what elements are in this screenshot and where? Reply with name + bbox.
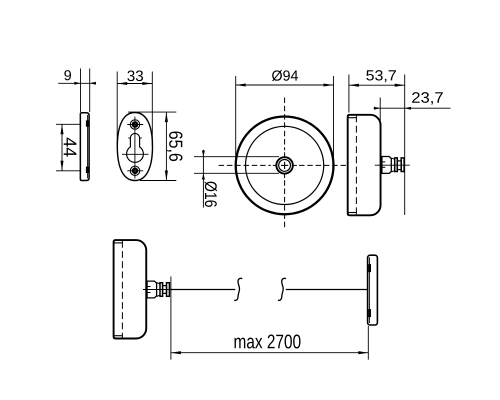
connector notch bottom	[368, 309, 371, 317]
dim 33 label	[127, 70, 143, 81]
cable segment 2	[286, 289, 368, 291]
cable break S2	[278, 278, 286, 300]
stud nut bottom	[147, 281, 157, 298]
dim O94 dimension line	[236, 84, 334, 86]
dim max2700 extension line left	[170, 277, 172, 360]
dim 44 extension lines	[56, 123, 80, 125]
dim 65,6 dimension line	[165, 112, 167, 180]
connector plate side view	[368, 255, 378, 325]
dim 23,7 label	[412, 92, 443, 104]
plate profile outline	[80, 113, 89, 181]
dim O16 extension lines	[194, 156, 279, 158]
stud cross	[281, 164, 288, 166]
dim 23,7 dimension line	[374, 107, 451, 109]
screw hole notch bottom	[86, 167, 89, 173]
dim 44 label	[64, 138, 77, 157]
nut flats bottom	[147, 286, 150, 288]
lens dashed line	[355, 116, 357, 215]
dim O16 dimension line	[202, 150, 204, 208]
cable break S1	[234, 278, 242, 300]
dim 23,7 extension line left	[379, 98, 381, 126]
connector notch top	[368, 264, 371, 272]
nut flats	[382, 161, 385, 163]
dim 9 label	[64, 70, 71, 80]
dim 9 extension line right	[89, 69, 91, 113]
horizontal centerline dashed	[219, 164, 271, 166]
screw hole bottom	[130, 166, 139, 175]
lens dashed line bottom	[121, 241, 123, 338]
dim O16 label	[205, 181, 218, 206]
center stud outer	[276, 157, 293, 174]
stud neck bottom	[163, 286, 167, 294]
dim 9 dimension line	[58, 82, 96, 84]
dim max2700 extension line right	[367, 326, 369, 360]
lamp body outline bottom	[114, 240, 147, 338]
dim 53,7 dimension line	[349, 84, 405, 86]
lamp body outline	[348, 115, 381, 215]
dim 33 extension lines	[116, 72, 118, 147]
connector inner face line	[368, 257, 370, 323]
lamp inner circle	[246, 126, 324, 204]
dim 65,6 extension lines	[128, 111, 176, 113]
dim O94 label	[272, 70, 298, 81]
lens step top bottom-view	[114, 242, 122, 244]
lamp outer circle	[236, 116, 334, 214]
nut-washer steps bottom	[157, 283, 160, 284]
dim max 2700 label	[235, 335, 301, 349]
stud washer bottom	[160, 283, 163, 297]
keyhole horizontal centerline	[122, 153, 149, 155]
cable segment 1	[169, 289, 235, 291]
plate vertical centerline	[134, 117, 136, 179]
lens step bottom bottom-view	[114, 335, 122, 337]
vertical centerline dashed	[284, 98, 286, 151]
dim 9 extension line left	[80, 69, 82, 113]
oval plate outline	[117, 113, 152, 181]
stud washer	[395, 158, 398, 172]
dim 53,7 extension line left	[348, 75, 350, 113]
stud centerline	[375, 164, 410, 166]
stud centerline bottom	[143, 289, 175, 291]
center stud inner	[279, 160, 291, 172]
dim 53,7 label	[366, 70, 396, 82]
lens step bottom	[349, 212, 357, 214]
nut-washer steps	[391, 158, 394, 159]
dim max2700 dimension line	[171, 352, 368, 354]
dim 53,7 extension line right (stud tip)	[404, 75, 406, 216]
stud end disc bottom	[167, 283, 170, 297]
dim 65,6 label	[167, 132, 183, 162]
screw hole top	[130, 120, 139, 129]
keyhole slot	[127, 133, 144, 162]
dim O94 extension lines	[235, 76, 237, 158]
stud neck	[397, 161, 401, 170]
dim 44 dimension line	[61, 124, 63, 171]
stud end disc	[401, 158, 404, 172]
screw hole notch top	[86, 120, 89, 126]
plate profile inner face line	[87, 115, 89, 178]
lens step top	[349, 117, 357, 119]
stud nut	[382, 157, 391, 174]
dim 33 dimension line	[117, 83, 152, 85]
